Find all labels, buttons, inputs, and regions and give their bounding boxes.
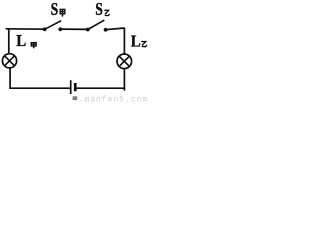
svg-text:.manfen5.com: .manfen5.com <box>79 95 149 103</box>
svg-text:S: S <box>51 0 59 19</box>
svg-text:S: S <box>95 0 103 19</box>
svg-text:L: L <box>16 31 26 50</box>
svg-text:L: L <box>131 31 141 50</box>
